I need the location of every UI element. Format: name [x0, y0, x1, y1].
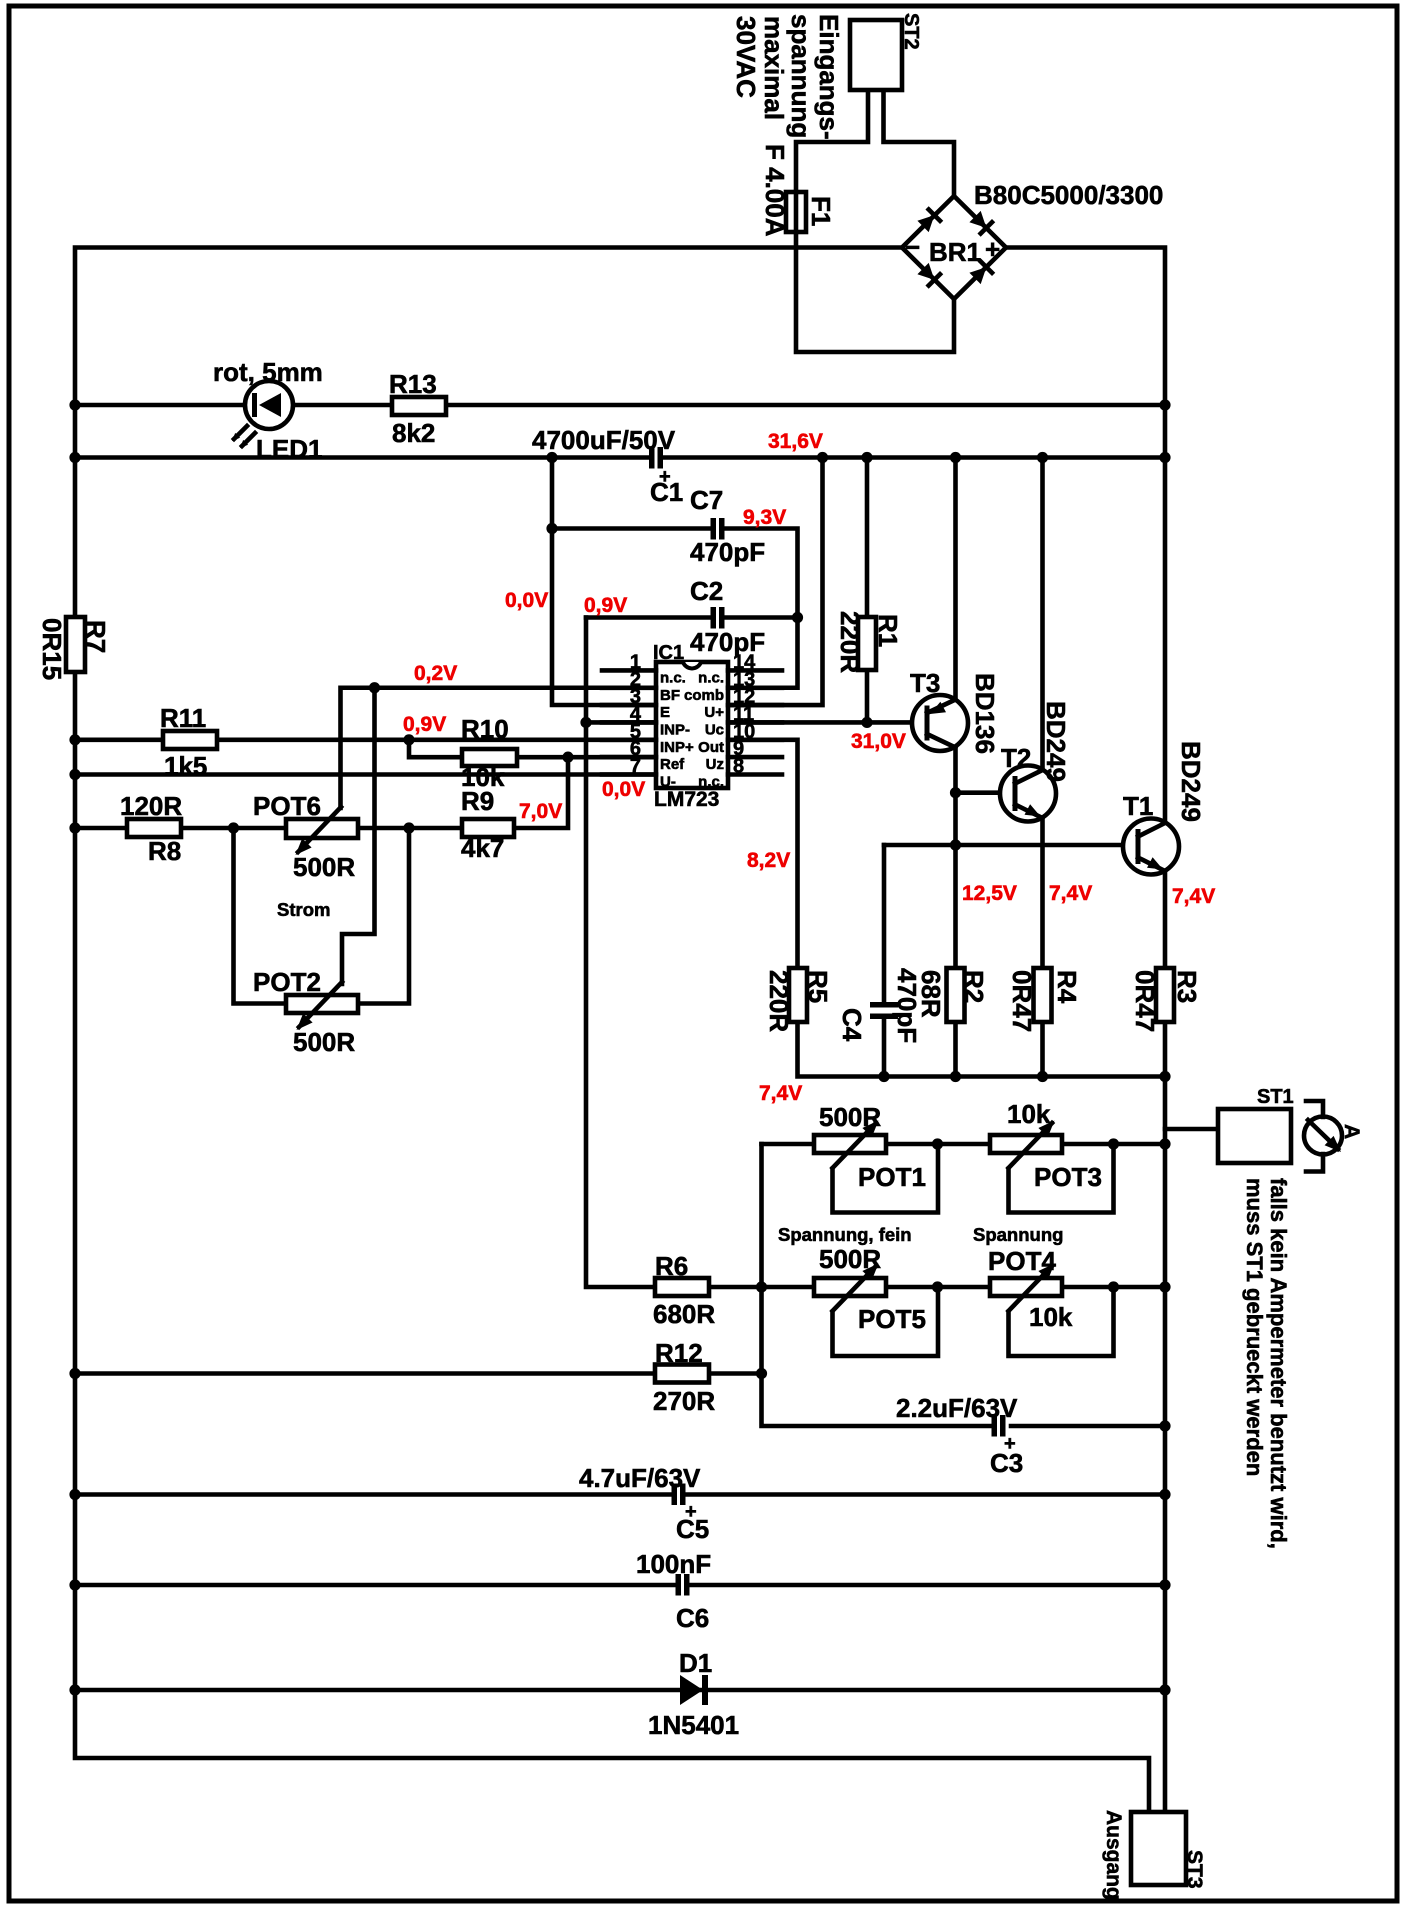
- svg-text:INP-: INP-: [660, 721, 690, 738]
- capacitor C1 4700uF/50V: [649, 447, 663, 469]
- svg-text:0,2V: 0,2V: [414, 662, 457, 685]
- svg-text:10k: 10k: [1007, 1099, 1051, 1129]
- svg-text:BR1: BR1: [929, 237, 981, 267]
- bridge rectifier BR1: [902, 196, 1006, 299]
- junction: [1159, 399, 1170, 410]
- potentiometer POT3 body: [990, 1135, 1062, 1153]
- wire POT4 wiper loop: [1009, 1287, 1114, 1356]
- ammeter symbol: [1304, 1101, 1342, 1172]
- svg-text:R6: R6: [655, 1251, 688, 1281]
- wire T3/R2 vertical: [953, 458, 958, 1077]
- POT6 wiper arrow: [296, 839, 312, 856]
- svg-text:POT6: POT6: [253, 791, 321, 821]
- capacitor C3 2.2uF/63V: [992, 1415, 1006, 1437]
- resistor R2 body: [947, 968, 965, 1022]
- svg-text:falls kein Ampermeter benutzt: falls kein Ampermeter benutzt wird,: [1266, 1178, 1291, 1549]
- svg-text:120R: 120R: [120, 791, 182, 821]
- svg-text:680R: 680R: [653, 1299, 715, 1329]
- svg-text:R4: R4: [1052, 970, 1082, 1004]
- svg-text:T3: T3: [910, 668, 940, 698]
- svg-text:BF: BF: [660, 687, 680, 704]
- junction: [756, 1368, 767, 1379]
- wire C7 line to IC1 pin 13: [552, 529, 798, 688]
- junction: [1159, 1138, 1170, 1149]
- svg-text:31,0V: 31,0V: [851, 730, 906, 753]
- wire R8/POT6 line: [75, 826, 409, 831]
- svg-text:LM723: LM723: [654, 788, 719, 811]
- svg-text:F 4.00A: F 4.00A: [760, 144, 790, 237]
- svg-text:C2: C2: [690, 576, 723, 606]
- wire C2 line: [586, 615, 798, 620]
- svg-text:C7: C7: [690, 485, 723, 515]
- junction: [950, 452, 961, 463]
- svg-text:2.2uF/63V: 2.2uF/63V: [896, 1393, 1018, 1423]
- svg-text:Ausgang: Ausgang: [1102, 1810, 1125, 1900]
- capacitor C2 470pF: [711, 607, 725, 629]
- wire IC1 pin 10 through R5 to stage bottom rail: [728, 740, 1165, 1077]
- transistor T1 BD249: [1123, 819, 1179, 875]
- svg-text:n.c.: n.c.: [660, 669, 686, 686]
- svg-text:C1: C1: [650, 477, 683, 507]
- svg-text:POT5: POT5: [858, 1304, 926, 1334]
- svg-text:R5: R5: [803, 970, 833, 1003]
- junction: [580, 717, 591, 728]
- svg-text:T1: T1: [1123, 791, 1153, 821]
- junction: [1037, 1071, 1048, 1082]
- svg-text:8,2V: 8,2V: [747, 849, 790, 872]
- svg-text:maximal: maximal: [759, 16, 789, 120]
- resistor R11 body: [163, 731, 217, 749]
- junction: [546, 452, 557, 463]
- svg-text:n.c.: n.c.: [698, 669, 724, 686]
- wire POT3 wiper loop: [1009, 1144, 1114, 1213]
- svg-text:7,4V: 7,4V: [1172, 885, 1215, 908]
- junction: [792, 612, 803, 623]
- junction: [69, 452, 80, 463]
- wire to ST1: [1165, 1127, 1218, 1132]
- svg-text:8: 8: [733, 756, 744, 778]
- svg-text:R3: R3: [1172, 970, 1202, 1003]
- wire C4 branch (broken at plates): [882, 845, 887, 1077]
- svg-text:R13: R13: [389, 369, 437, 399]
- wire R10 line to IC1 pin 6: [409, 740, 656, 757]
- svg-text:BD249: BD249: [1176, 741, 1206, 822]
- svg-text:4k7: 4k7: [461, 833, 504, 863]
- svg-text:E: E: [660, 704, 670, 721]
- junction: [69, 734, 80, 745]
- junction: [1108, 1138, 1119, 1149]
- wire pin2 net to POT2 wiper: [342, 688, 375, 984]
- svg-text:C3: C3: [990, 1448, 1023, 1478]
- svg-text:8k2: 8k2: [392, 418, 435, 448]
- LED LED1: [232, 381, 293, 448]
- op-amp/regulator IC1 LM723: [602, 662, 782, 788]
- wire R11 line to IC1 pin 5: [75, 737, 656, 742]
- capacitor C6 100nF: [676, 1574, 690, 1596]
- svg-text:0R15: 0R15: [37, 618, 67, 680]
- junction: [950, 839, 961, 850]
- junction: [1159, 1684, 1170, 1695]
- svg-text:IC1: IC1: [653, 642, 684, 664]
- svg-text:muss ST1 gebrueckt werden: muss ST1 gebrueckt werden: [1242, 1178, 1267, 1476]
- svg-text:Eingangs-: Eingangs-: [814, 14, 844, 140]
- junction: [1159, 1071, 1170, 1082]
- connector ST2: [850, 20, 902, 90]
- svg-text:POT3: POT3: [1034, 1162, 1102, 1192]
- svg-text:100nF: 100nF: [636, 1549, 711, 1579]
- connector ST3: [1131, 1812, 1186, 1885]
- svg-text:BD249: BD249: [1041, 701, 1071, 782]
- svg-text:Spannung, fein: Spannung, fein: [778, 1224, 912, 1245]
- junction: [69, 1579, 80, 1590]
- capacitor C4 470pF: [870, 1002, 898, 1019]
- svg-text:Uc: Uc: [705, 721, 724, 738]
- resistor R3 body: [1156, 968, 1174, 1022]
- svg-text:−: −: [905, 232, 920, 262]
- svg-text:12,5V: 12,5V: [962, 882, 1017, 905]
- junction: [932, 1281, 943, 1292]
- wire IC1 pin 11 to T3 base: [728, 720, 926, 725]
- svg-text:T2: T2: [1001, 743, 1031, 773]
- svg-text:220R: 220R: [835, 611, 865, 673]
- svg-text:Uz: Uz: [706, 756, 724, 773]
- svg-text:500R: 500R: [819, 1244, 881, 1274]
- svg-text:ST3: ST3: [1183, 1850, 1206, 1889]
- wire stub to IC1 pin 4: [586, 720, 656, 725]
- svg-text:B80C5000/3300: B80C5000/3300: [974, 180, 1163, 210]
- wire R12 line: [75, 1371, 762, 1376]
- wire D1 line: [75, 1688, 1165, 1693]
- svg-text:A: A: [1340, 1124, 1363, 1139]
- wire C5 line: [75, 1492, 1165, 1497]
- resistor R7 body: [66, 617, 85, 672]
- resistor R9 body: [462, 819, 514, 837]
- wire rail through R1 to pin 11 node: [865, 458, 870, 723]
- junction: [69, 1489, 80, 1500]
- wire positive rail from BR1+ down right side to ST3: [1007, 248, 1165, 1815]
- wire rail to IC1 pin 12: [730, 458, 823, 706]
- svg-text:0,0V: 0,0V: [602, 778, 645, 801]
- svg-text:C5: C5: [676, 1514, 709, 1544]
- svg-text:7,0V: 7,0V: [519, 800, 562, 823]
- svg-text:POT4: POT4: [988, 1246, 1056, 1276]
- svg-text:F1: F1: [806, 196, 836, 226]
- wire to T1 base: [884, 843, 1137, 848]
- svg-text:Spannung: Spannung: [973, 1224, 1063, 1245]
- svg-text:R7: R7: [81, 620, 111, 653]
- svg-text:C4: C4: [837, 1008, 867, 1042]
- svg-text:7,4V: 7,4V: [1049, 882, 1092, 905]
- junction: [950, 787, 961, 798]
- junction: [69, 1368, 80, 1379]
- svg-text:0,0V: 0,0V: [505, 589, 548, 612]
- wire ST2 pin2 to BR1 AC top: [884, 90, 955, 196]
- svg-text:0,9V: 0,9V: [584, 594, 627, 617]
- wire ST2 pin1 through fuse to BR1 AC bottom: [796, 90, 954, 352]
- svg-text:ST2: ST2: [900, 13, 922, 50]
- wire main 31.6V rail (broken at C1): [75, 455, 1165, 460]
- junction: [1159, 1281, 1170, 1292]
- wire LED/R13 line: [75, 403, 1165, 408]
- junction: [1159, 452, 1170, 463]
- fuse F1: [786, 192, 806, 232]
- svg-text:INP+: INP+: [660, 739, 694, 756]
- wire T2/R4 vertical: [1040, 458, 1045, 1077]
- svg-text:0,9V: 0,9V: [403, 713, 446, 736]
- svg-text:C6: C6: [676, 1603, 709, 1633]
- svg-text:470pF: 470pF: [690, 537, 765, 567]
- wire rail to IC1 pin 3: [552, 458, 656, 706]
- resistor R1 body: [858, 617, 876, 670]
- svg-text:0R47: 0R47: [1130, 970, 1160, 1032]
- svg-text:4.7uF/63V: 4.7uF/63V: [579, 1463, 701, 1493]
- svg-text:1N5401: 1N5401: [648, 1710, 739, 1740]
- junction: [69, 769, 80, 780]
- resistor R8 body: [127, 819, 181, 837]
- wire R9 to pin6 node: [409, 757, 568, 828]
- junction: [878, 1071, 889, 1082]
- svg-text:0R47: 0R47: [1007, 970, 1037, 1032]
- svg-text:220R: 220R: [764, 970, 794, 1032]
- svg-text:R9: R9: [461, 786, 494, 816]
- svg-text:R11: R11: [160, 703, 206, 733]
- transistor T2 BD249: [1000, 766, 1056, 822]
- wire pin4 net down to R6/POT row 2: [586, 618, 1165, 1288]
- wire C6 line: [75, 1583, 1165, 1588]
- capacitor C5 4.7uF/63V: [672, 1484, 686, 1506]
- junction: [69, 822, 80, 833]
- svg-text:Ref: Ref: [660, 756, 685, 773]
- wire POT5 wiper loop: [833, 1287, 939, 1356]
- svg-text:R12: R12: [655, 1338, 703, 1368]
- svg-text:Strom: Strom: [277, 899, 330, 920]
- junction: [562, 752, 573, 763]
- svg-text:+: +: [985, 234, 1000, 264]
- svg-text:LED1: LED1: [256, 434, 322, 464]
- junction: [1108, 1281, 1119, 1292]
- svg-text:68R: 68R: [916, 970, 946, 1018]
- svg-text:Out: Out: [698, 739, 724, 756]
- junction: [950, 1071, 961, 1082]
- junction: [69, 399, 80, 410]
- wire IC1 pin 2 to POT6 wiper: [341, 688, 657, 808]
- svg-text:500R: 500R: [819, 1102, 881, 1132]
- resistor R12 body: [655, 1365, 709, 1383]
- junction: [932, 1138, 943, 1149]
- svg-text:R2: R2: [959, 970, 989, 1003]
- wire left pot bus down to C3 line: [762, 1144, 1166, 1426]
- junction: [817, 452, 828, 463]
- junction: [861, 717, 872, 728]
- svg-text:U+: U+: [704, 704, 724, 721]
- junction: [861, 452, 872, 463]
- junction: [1159, 1489, 1170, 1500]
- junction: [1159, 1420, 1170, 1431]
- resistor R4 body: [1034, 968, 1052, 1022]
- junction: [1159, 1579, 1170, 1590]
- svg-text:rot, 5mm: rot, 5mm: [213, 357, 323, 387]
- junction: [546, 523, 557, 534]
- svg-text:comb: comb: [684, 687, 724, 704]
- svg-text:POT1: POT1: [858, 1162, 926, 1192]
- resistor R10 body: [462, 749, 517, 766]
- svg-text:POT2: POT2: [253, 967, 321, 997]
- resistor R6 body: [655, 1278, 709, 1296]
- wire negative rail from BR1- down left side to ST3: [75, 248, 1149, 1815]
- svg-text:7,4V: 7,4V: [759, 1082, 802, 1105]
- wire POT1/POT3 row: [762, 1142, 1166, 1147]
- diode D1 1N5401: [680, 1675, 708, 1705]
- svg-text:10k: 10k: [1029, 1302, 1073, 1332]
- transistor T3 BD136: [912, 695, 968, 751]
- svg-text:ST1: ST1: [1257, 1086, 1294, 1108]
- svg-text:31,6V: 31,6V: [768, 430, 823, 453]
- svg-text:30VAC: 30VAC: [731, 16, 761, 98]
- svg-text:BD136: BD136: [970, 673, 1000, 754]
- junction: [403, 734, 414, 745]
- capacitor C7 470pF: [711, 518, 725, 540]
- wire T3 collector node to T2 base: [956, 790, 1015, 795]
- resistor R13 body: [392, 397, 446, 415]
- junction: [756, 1281, 767, 1292]
- svg-text:D1: D1: [679, 1648, 712, 1678]
- svg-text:270R: 270R: [653, 1386, 715, 1416]
- potentiometer POT4 body: [990, 1278, 1062, 1296]
- junction: [69, 1684, 80, 1695]
- svg-text:9,3V: 9,3V: [743, 506, 786, 529]
- svg-text:7: 7: [630, 756, 641, 778]
- resistor R5 body: [789, 968, 807, 1022]
- junction: [228, 822, 239, 833]
- junction: [403, 822, 414, 833]
- svg-text:500R: 500R: [293, 852, 355, 882]
- potentiometer POT6 body: [286, 819, 358, 838]
- svg-text:R1: R1: [873, 614, 903, 647]
- junction: [1037, 452, 1048, 463]
- wire POT2 loop: [234, 828, 410, 1004]
- svg-text:500R: 500R: [293, 1027, 355, 1057]
- junction: [369, 682, 380, 693]
- svg-text:spannung: spannung: [786, 14, 816, 138]
- wire POT1 wiper loop: [833, 1144, 939, 1213]
- svg-text:R10: R10: [461, 714, 509, 744]
- POT2 wiper arrow: [297, 1014, 313, 1031]
- potentiometer POT1 body: [814, 1135, 886, 1153]
- potentiometer POT5 body: [814, 1278, 886, 1296]
- svg-text:4700uF/50V: 4700uF/50V: [532, 425, 676, 455]
- potentiometer POT2 body: [286, 995, 358, 1013]
- wire ground to IC1 pin 7: [75, 772, 656, 777]
- connector ST1: [1218, 1109, 1291, 1163]
- svg-text:R8: R8: [148, 836, 181, 866]
- svg-text:1k5: 1k5: [164, 751, 207, 781]
